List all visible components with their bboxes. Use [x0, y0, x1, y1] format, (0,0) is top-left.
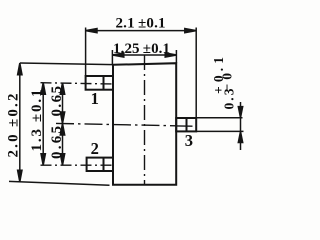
dimension 0.65 line: [62, 83, 64, 166]
centerline body horizontal: [56, 123, 176, 125]
centerline through pin 3: [176, 125, 192, 127]
dimension 2.0 top extension: [20, 63, 113, 65]
svg-text:1.25 ±0.1: 1.25 ±0.1: [113, 41, 170, 57]
centerline body vertical: [144, 55, 146, 185]
dimension 1.3 line: [42, 83, 44, 166]
dimension 2.1 line: [86, 30, 197, 32]
dimension 0.3 line with outside arrows: [240, 102, 242, 150]
dimension 1.25 line: [112, 54, 176, 56]
pin 3: [176, 118, 196, 131]
centerline pin2 horizontal: [41, 164, 114, 166]
dimension 0.3 top extension: [196, 117, 242, 119]
dimension 1.25 left extension: [111, 50, 113, 65]
pin 2: [87, 158, 113, 171]
dimension 0.3 bottom extension: [196, 130, 243, 132]
svg-text:3: 3: [185, 131, 193, 150]
svg-text:2: 2: [91, 139, 99, 158]
pin 1: [86, 76, 113, 90]
dimension 2.0 bottom extension: [9, 181, 110, 185]
svg-text:0.65: 0.65: [49, 86, 65, 117]
package body: [113, 63, 176, 185]
dimension 2.0 line: [19, 63, 21, 182]
centerline pin1 horizontal: [41, 83, 114, 84]
label dimension 0.3 +0.1/-0 (rotated, with stacked tolerance): [211, 57, 237, 110]
pin 2 bend line: [103, 158, 105, 171]
svg-text:0.65: 0.65: [49, 126, 65, 159]
dimension 2.1 left extension: [85, 28, 87, 77]
svg-text:2.1 ±0.1: 2.1 ±0.1: [116, 16, 166, 32]
svg-text:1: 1: [91, 89, 99, 108]
pin 3 bend line: [186, 118, 188, 131]
dimension 2.1 right extension: [195, 28, 197, 119]
pin 1 bend line: [103, 76, 105, 90]
dimension 1.25 right extension: [175, 50, 177, 63]
